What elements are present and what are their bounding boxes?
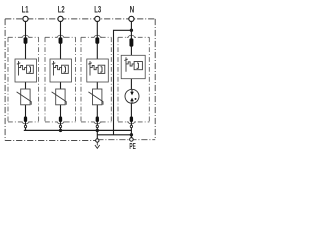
gas discharge tube N-PE [125, 89, 139, 103]
lead-through circle col 2 [59, 125, 61, 127]
junction dot col4 lower [130, 133, 133, 136]
lead-through circle col 4 [130, 125, 132, 127]
earth arrow [95, 142, 100, 148]
PE terminal circle [130, 138, 134, 142]
boundary dip cup col 4 [127, 122, 136, 124]
disconnector blob bottom col 2 [59, 117, 62, 123]
disconnector blob top N [129, 38, 133, 46]
wire L1 vertical [25, 22, 27, 59]
boundary hop dome L1 [21, 35, 30, 37]
bus lower segment [97, 134, 131, 136]
disconnector blob top L1 [24, 37, 28, 43]
junction dot N branch [130, 29, 133, 32]
module box 2 dashed [45, 37, 76, 122]
terminal L3 [95, 16, 100, 21]
lead-through circle col 1 [24, 125, 26, 127]
N branch wire to varistor bus [114, 30, 132, 130]
wire N vertical [130, 22, 132, 56]
disconnector blob top L3 [95, 37, 99, 43]
wire col 3 lower vertical [96, 82, 98, 130]
wire col 1 lower vertical [25, 82, 27, 130]
boundary hop dome N [127, 35, 136, 37]
terminal L2 [58, 16, 63, 21]
module box 1 dashed [8, 37, 39, 122]
disconnector blob bottom col 1 [24, 117, 27, 123]
varistor col 2 [52, 89, 67, 105]
wire col 2 lower vertical [60, 82, 62, 130]
svg-text:L1: L1 [22, 4, 29, 14]
wire L3 vertical [96, 22, 98, 59]
disconnector blob top L2 [59, 37, 63, 43]
earth drop wire col3 [96, 130, 98, 138]
varistor col 1 [17, 89, 32, 105]
PE bus upper segment [24, 129, 132, 131]
module box 4 dashed [118, 37, 149, 122]
svg-text:L3: L3 [94, 4, 101, 14]
lead-through circle col 3 [96, 125, 98, 127]
earth terminal circle col3 [96, 139, 99, 142]
wire L2 vertical [60, 22, 62, 59]
disconnector blob bottom col 4 [130, 117, 133, 123]
bus step segment [113, 130, 115, 134]
disconnector blob bottom col 3 [96, 117, 99, 123]
module box 3 dashed [81, 37, 111, 122]
boundary hop dome L3 [93, 35, 102, 37]
spark gap box col 4 [121, 55, 145, 78]
svg-text:L2: L2 [58, 4, 65, 14]
svg-text:N: N [130, 4, 135, 14]
white patches at wire crossings [22, 34, 136, 126]
varistor col 3 [88, 89, 103, 105]
boundary hop dome L2 [56, 35, 65, 37]
spark gap box col 1 [15, 59, 37, 82]
terminal N [129, 16, 134, 21]
boundary dip cup col 2 [56, 122, 65, 124]
junction dot bus col3 [96, 129, 99, 132]
terminal L1 [23, 16, 28, 21]
spark gap box col 3 [87, 59, 109, 82]
spark gap box col 2 [50, 59, 72, 82]
bus left riser col1 [25, 127, 27, 130]
svg-text:PE: PE [129, 142, 135, 151]
junction dot bus col2 [59, 129, 62, 132]
boundary dip cup col 1 [21, 122, 30, 124]
enclosure outer dash-dot border [5, 19, 155, 141]
wire N gdt link and lower [130, 79, 132, 139]
boundary dip cup col 3 [93, 122, 102, 124]
